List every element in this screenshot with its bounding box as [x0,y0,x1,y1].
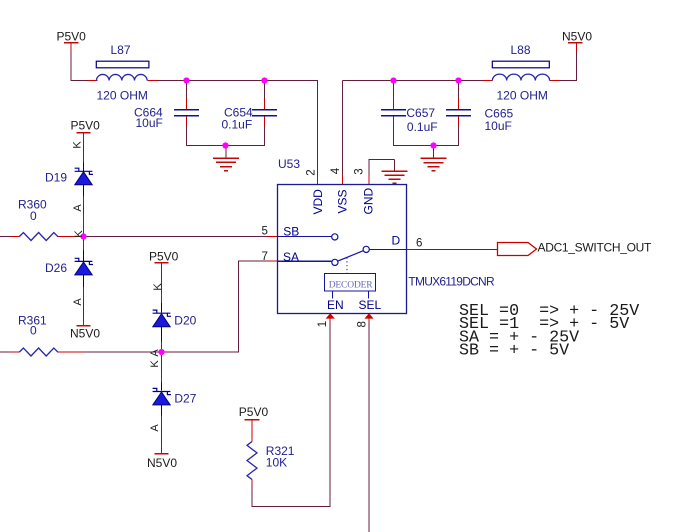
svg-text:L87: L87 [111,43,131,57]
svg-text:A: A [72,204,84,212]
svg-text:SA: SA [283,250,299,264]
svg-text:GND: GND [362,188,376,215]
svg-text:VDD: VDD [311,189,325,215]
svg-text:A: A [149,349,161,357]
svg-text:K: K [152,283,164,291]
svg-text:7: 7 [262,251,268,263]
svg-text:U53: U53 [278,157,300,171]
svg-text:P5V0: P5V0 [239,405,269,419]
svg-text:D19: D19 [45,171,67,185]
svg-text:SB = + - 5V: SB = + - 5V [459,342,569,361]
svg-text:DECODER: DECODER [329,281,374,291]
svg-text:D: D [392,234,401,248]
svg-text:120 OHM: 120 OHM [497,89,548,103]
svg-text:10K: 10K [266,456,287,470]
svg-text:120 OHM: 120 OHM [97,89,148,103]
svg-text:A: A [149,424,161,432]
svg-text:EN: EN [327,298,344,312]
svg-text:10uF: 10uF [485,119,512,133]
svg-text:D20: D20 [174,313,196,327]
svg-text:1: 1 [317,321,329,327]
svg-text:8: 8 [357,321,369,327]
svg-text:5: 5 [262,226,268,238]
svg-text:SEL: SEL [359,298,382,312]
svg-text:4: 4 [330,167,342,174]
svg-text:L88: L88 [511,43,531,57]
svg-text:ADC1_SWITCH_OUT: ADC1_SWITCH_OUT [538,240,652,254]
svg-text:K: K [149,360,161,368]
svg-text:D26: D26 [45,261,67,275]
svg-text:6: 6 [416,238,422,250]
svg-text:SB: SB [283,224,299,238]
svg-text:TMUX6119DCNR: TMUX6119DCNR [408,275,495,289]
svg-text:D27: D27 [174,391,196,405]
svg-text:0.1uF: 0.1uF [222,118,253,132]
svg-text:0.1uF: 0.1uF [407,120,438,134]
svg-text:A: A [72,298,84,306]
svg-text:N5V0: N5V0 [70,327,100,341]
svg-text:3: 3 [354,168,366,174]
svg-text:P5V0: P5V0 [149,250,179,264]
svg-text:0: 0 [30,209,37,223]
svg-text:VSS: VSS [336,189,350,213]
svg-text:2: 2 [306,169,318,175]
svg-text:10uF: 10uF [136,116,163,130]
svg-text:0: 0 [30,324,37,338]
svg-text:K: K [73,230,85,238]
svg-text:N5V0: N5V0 [562,29,592,43]
svg-text:P5V0: P5V0 [57,29,87,43]
svg-text:P5V0: P5V0 [71,119,101,133]
svg-text:K: K [72,141,84,149]
svg-text:N5V0: N5V0 [147,456,177,470]
svg-text:C657: C657 [406,106,435,120]
